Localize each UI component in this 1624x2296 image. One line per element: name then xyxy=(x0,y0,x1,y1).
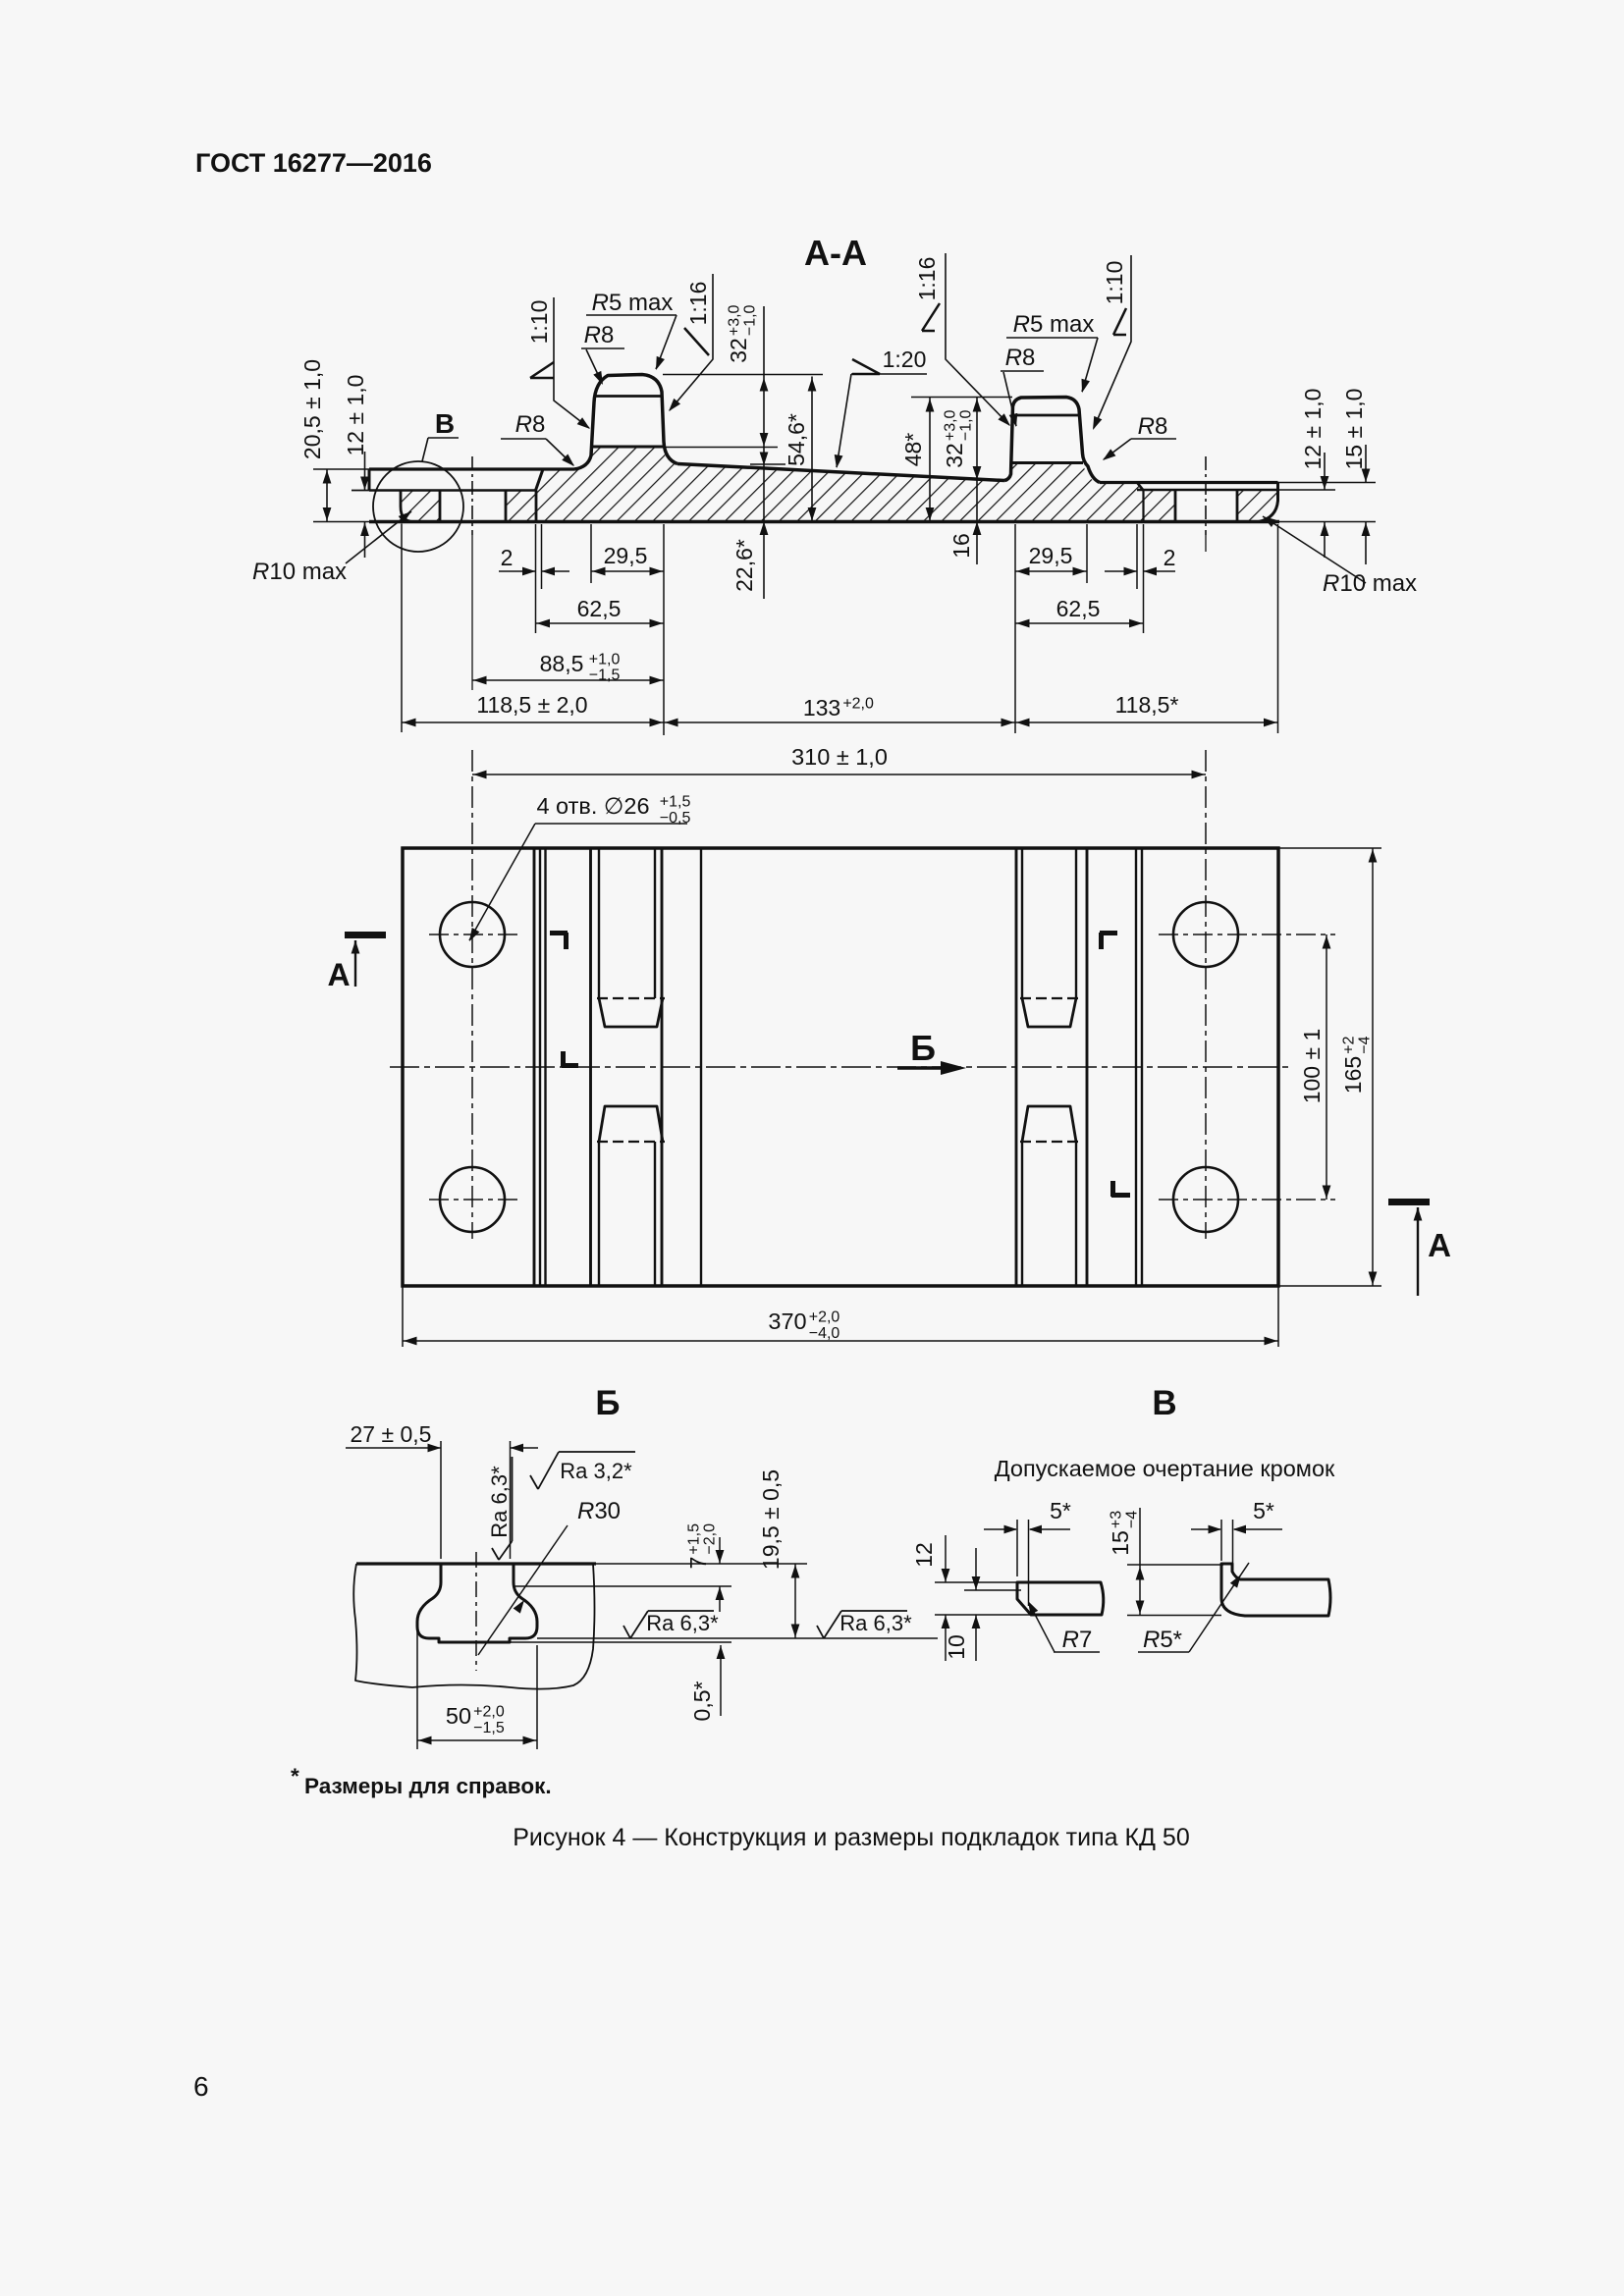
svg-text:5*: 5* xyxy=(1253,1498,1274,1523)
extension line right bottom xyxy=(1279,521,1376,523)
plan hole row centerline top-left xyxy=(429,934,517,935)
dimension 310 +- 1,0 xyxy=(472,774,1206,775)
svg-text:−2,0: −2,0 xyxy=(702,1523,719,1555)
svg-text:88,5: 88,5 xyxy=(540,651,584,676)
svg-text:−4,0: −4,0 xyxy=(809,1325,840,1342)
hatched block left lip xyxy=(401,491,440,522)
svg-text:20,5 ± 1,0: 20,5 ± 1,0 xyxy=(299,359,325,459)
svg-text:Ra 3,2*: Ra 3,2* xyxy=(560,1459,632,1483)
svg-text:0,5*: 0,5* xyxy=(689,1681,715,1721)
detail B block break outline xyxy=(353,1564,594,1689)
plan view outer outline xyxy=(403,848,1278,1286)
svg-text:165: 165 xyxy=(1340,1056,1366,1094)
svg-text:27 ± 0,5: 27 ± 0,5 xyxy=(351,1421,432,1447)
extension tick ledge 473 xyxy=(750,463,785,465)
svg-text:R5 max: R5 max xyxy=(1013,311,1095,338)
detail V left ext bottom xyxy=(935,1614,1031,1616)
left body wall (step) xyxy=(536,469,544,491)
dimension 7 ext xyxy=(514,1585,731,1587)
left flange inner line (pocket bottom) xyxy=(369,489,536,492)
leader R8 right top xyxy=(1003,372,1016,426)
detail B R30 leader xyxy=(478,1525,568,1655)
leader 1:16 right rib xyxy=(946,253,1009,425)
svg-text:А: А xyxy=(1428,1227,1451,1263)
svg-text:1:10: 1:10 xyxy=(1102,261,1127,305)
svg-text:А-А: А-А xyxy=(804,233,867,273)
bolt hole top-right xyxy=(1173,902,1238,967)
svg-text:R8: R8 xyxy=(1005,345,1036,371)
left flange top surface xyxy=(369,467,574,470)
extension of left dome top xyxy=(663,374,823,376)
svg-text:29,5: 29,5 xyxy=(1029,543,1073,568)
svg-text:10: 10 xyxy=(944,1634,969,1660)
dimension 32 left line xyxy=(763,306,765,599)
underline R8 left left xyxy=(501,438,546,440)
left groove trapezoid upper xyxy=(599,998,663,1027)
dimension 12 +- 1,0 right line xyxy=(1324,453,1326,490)
left hole centerline xyxy=(471,456,473,535)
dimension 50 +2,0/-1,5 xyxy=(417,1739,537,1741)
svg-text:Ra 6,3*: Ra 6,3* xyxy=(839,1611,912,1635)
slope mark 1:16 right rib xyxy=(922,303,940,331)
right groove trapezoid upper xyxy=(1022,998,1076,1027)
leader R7 xyxy=(1029,1603,1055,1652)
svg-text:15: 15 xyxy=(1108,1530,1133,1556)
left rib dome underline (R5 max boundary) xyxy=(595,395,662,398)
slope mark 1:10 right rib xyxy=(1113,308,1126,335)
ext line x602 xyxy=(590,524,592,583)
plan rib edge lower x=667 xyxy=(654,1142,656,1286)
dimension 15 +- 1,0 right line xyxy=(1365,445,1367,483)
svg-text:+2,0: +2,0 xyxy=(473,1703,505,1720)
plan vertical line x=714 xyxy=(700,848,702,1286)
dimension 5 ext lines (V left) xyxy=(1016,1520,1018,1576)
svg-text:R5 max: R5 max xyxy=(592,290,674,316)
dimension 32 right text xyxy=(942,409,975,467)
svg-text:Рисунок 4 — Конструкция и разм: Рисунок 4 — Конструкция и размеры подкла… xyxy=(513,1824,1190,1851)
svg-text:R30: R30 xyxy=(577,1498,621,1524)
leader 1:20 xyxy=(837,374,851,467)
extension line for 12 left xyxy=(352,490,371,492)
detail V left ext top xyxy=(935,1581,1017,1583)
svg-text:1:20: 1:20 xyxy=(883,347,927,372)
detail V right ext bottom xyxy=(1127,1615,1221,1617)
right groove trapezoid lower xyxy=(1022,1106,1076,1142)
plan rib edge lower x=610 xyxy=(598,1142,600,1286)
dimension 7 line xyxy=(719,1537,721,1564)
svg-text:29,5: 29,5 xyxy=(604,543,648,568)
svg-text:R10 max: R10 max xyxy=(252,559,347,585)
svg-text:1:10: 1:10 xyxy=(526,300,552,345)
dimension 0,5 line xyxy=(720,1645,722,1716)
svg-text:R8: R8 xyxy=(1138,413,1168,440)
svg-text:12 ± 1,0: 12 ± 1,0 xyxy=(343,375,368,456)
leader R8 left left xyxy=(546,439,573,465)
svg-text:R8: R8 xyxy=(515,411,546,438)
right flange inner line (pocket bottom) xyxy=(1137,489,1278,492)
ext plan bottom-left xyxy=(402,1286,404,1347)
slope mark 1:16 left rib xyxy=(684,328,709,355)
svg-text:+3: +3 xyxy=(1109,1511,1125,1528)
roughness Ra 3,2 (groove flare) xyxy=(530,1452,635,1489)
dimension 15 line (V) xyxy=(1139,1508,1141,1615)
detail B top surface xyxy=(356,1562,596,1565)
underline R8 right right xyxy=(1131,438,1176,440)
underline R5 max left xyxy=(586,314,677,316)
dimension 54,6 line xyxy=(811,377,813,522)
detail B centerline xyxy=(475,1552,477,1671)
dimension 32 right + 16 line xyxy=(976,398,978,565)
hatched block right lip xyxy=(1237,491,1278,522)
bolt hole top-left xyxy=(440,902,505,967)
svg-text:−4: −4 xyxy=(1357,1036,1374,1053)
detail V right ext top xyxy=(1127,1564,1223,1566)
svg-text:+3,0: +3,0 xyxy=(943,409,959,441)
plan vertical line x=555.5 xyxy=(544,848,546,1286)
block2 right edge xyxy=(535,491,538,522)
svg-text:Допускаемое очертание кромок: Допускаемое очертание кромок xyxy=(995,1456,1335,1481)
svg-text:В: В xyxy=(1152,1384,1176,1422)
underline R5 max right xyxy=(1006,337,1098,339)
dimension 27 +- 0,5 xyxy=(346,1447,441,1449)
svg-text:Размеры для справок.: Размеры для справок. xyxy=(304,1774,552,1798)
roughness Ra 6,3 (far right) xyxy=(817,1611,907,1638)
svg-text:7: 7 xyxy=(685,1557,711,1570)
dimension 118,5* right xyxy=(1015,721,1278,723)
svg-text:133: 133 xyxy=(803,695,840,721)
dimension 10 line (V) xyxy=(975,1548,977,1590)
dimension 27 ext lines xyxy=(440,1441,442,1559)
right lip block left edge xyxy=(1236,490,1239,522)
plan horizontal axis centerline xyxy=(390,1066,1293,1068)
svg-text:370: 370 xyxy=(768,1308,806,1334)
dimension 29,5 right xyxy=(1015,570,1087,572)
ext plan bottom-right2 xyxy=(1277,1286,1279,1347)
leader 4 holes xyxy=(469,824,535,940)
plan vertical line x=1035 xyxy=(1015,848,1018,1286)
plan vertical line x=550 xyxy=(539,848,541,1286)
svg-text:50: 50 xyxy=(446,1703,471,1729)
svg-text:Б: Б xyxy=(595,1384,620,1422)
svg-text:2: 2 xyxy=(501,545,514,570)
right groove hidden line upper xyxy=(1020,997,1078,999)
dimension 12 +- 1,0 left line xyxy=(364,452,366,491)
dimension 29,5 left xyxy=(591,570,664,572)
left lip block right edge (hole wall) xyxy=(439,491,442,522)
svg-text:R10 max: R10 max xyxy=(1323,570,1417,597)
svg-text:6: 6 xyxy=(193,2071,209,2102)
plate left edge xyxy=(368,469,371,491)
svg-text:1:16: 1:16 xyxy=(914,257,940,301)
right pocket edge xyxy=(1142,491,1144,522)
svg-text:+2,0: +2,0 xyxy=(809,1308,840,1325)
svg-text:−1,5: −1,5 xyxy=(589,667,621,684)
leader R8 left top xyxy=(586,349,602,383)
ext plan top-right xyxy=(1278,847,1381,849)
plan hole column centerline right xyxy=(1205,750,1207,1239)
dimension 88,5 left xyxy=(472,679,664,681)
right step wall xyxy=(1137,483,1144,491)
view boundary corner mark bottom-right xyxy=(1111,1181,1130,1197)
dimension 370 +2,0/-4,0 xyxy=(403,1340,1278,1342)
svg-text:R7: R7 xyxy=(1062,1627,1093,1653)
right hole centerline xyxy=(1205,456,1207,535)
dimension 48 line xyxy=(929,398,931,522)
underline R8 left top xyxy=(581,347,624,349)
label 4 holes dia 26 xyxy=(536,793,690,827)
plan hole column centerline left xyxy=(471,750,473,1239)
dimension 20,5 +- 1,0 line xyxy=(326,469,328,522)
extension of right dome top xyxy=(911,397,1012,399)
plan rib edge upper x=1041 xyxy=(1021,848,1023,998)
ext line x545.5 xyxy=(535,524,537,633)
ext line x676 xyxy=(663,524,665,735)
dimension 100 +- 1 xyxy=(1326,934,1327,1200)
right rib base line xyxy=(1012,461,1083,464)
svg-text:ГОСТ 16277—2016: ГОСТ 16277—2016 xyxy=(195,148,432,178)
svg-text:+1,0: +1,0 xyxy=(589,652,621,668)
cutting plane mark A left xyxy=(345,932,386,938)
sloped top surface 1:20 xyxy=(677,464,1004,481)
dimension 62,5 right xyxy=(1015,622,1144,624)
plan rib edge upper x=1096 xyxy=(1075,848,1077,998)
svg-text:−4: −4 xyxy=(1124,1511,1141,1528)
plan rib edge lower x=1096 xyxy=(1075,1142,1077,1286)
underline R7 xyxy=(1054,1651,1100,1653)
svg-text:А: А xyxy=(327,957,350,992)
leader 1:10 left rib xyxy=(554,297,589,428)
plan vertical line x=544 xyxy=(533,848,536,1286)
underline 1:20 xyxy=(851,373,927,375)
section baseline (bottom of plate) xyxy=(369,520,1279,524)
svg-text:32: 32 xyxy=(942,443,967,468)
plan rib edge upper x=667 xyxy=(654,848,656,998)
plan vertical line x=1163 xyxy=(1141,848,1143,1286)
right rib dome underline (R5 max boundary) xyxy=(1014,414,1079,417)
slope mark 1:10 left rib xyxy=(530,362,554,378)
svg-text:54,6*: 54,6* xyxy=(784,413,809,466)
ext line x409 xyxy=(401,524,403,733)
detail B top surface extension xyxy=(596,1563,807,1565)
underline R5* xyxy=(1138,1651,1189,1653)
svg-text:118,5 ± 2,0: 118,5 ± 2,0 xyxy=(476,692,587,718)
dimension 12 line (V) xyxy=(945,1535,947,1582)
plan hole row centerline bottom-right xyxy=(1159,1199,1335,1201)
hatched block left of hole 2 xyxy=(506,491,536,522)
svg-text:12: 12 xyxy=(911,1542,937,1568)
svg-text:118,5*: 118,5* xyxy=(1115,692,1179,718)
ext line x1107 xyxy=(1086,524,1088,583)
extension of right inner line xyxy=(1278,489,1336,491)
detail B groove bottom extension xyxy=(537,1637,938,1639)
detail B callout circle xyxy=(373,461,463,552)
svg-text:Ra 6,3*: Ra 6,3* xyxy=(646,1611,719,1635)
left rib base line xyxy=(592,446,664,449)
svg-text:12 ± 1,0: 12 ± 1,0 xyxy=(1300,389,1326,470)
plan hole row centerline bottom-left xyxy=(429,1199,517,1201)
svg-text:62,5: 62,5 xyxy=(577,596,622,621)
leader R5* xyxy=(1189,1563,1249,1652)
detail B callout leader xyxy=(422,438,459,461)
left flange top surface extension xyxy=(313,468,369,470)
leader R10 max left xyxy=(346,511,411,563)
svg-text:310 ± 1,0: 310 ± 1,0 xyxy=(791,744,888,770)
leader 1:10 right rib xyxy=(1094,255,1131,428)
extension of right top surface xyxy=(1278,482,1377,484)
svg-text:100 ± 1: 100 ± 1 xyxy=(1299,1029,1325,1104)
underline R8 right top xyxy=(1001,370,1044,372)
svg-text:62,5: 62,5 xyxy=(1056,596,1101,621)
svg-text:−1,5: −1,5 xyxy=(473,1720,505,1736)
dimension 32 left text xyxy=(726,304,759,362)
roughness Ra 6,3 (groove bottom) xyxy=(623,1611,714,1638)
svg-text:5*: 5* xyxy=(1050,1498,1071,1523)
svg-text:−1,0: −1,0 xyxy=(958,409,975,441)
svg-text:16: 16 xyxy=(948,533,974,559)
svg-text:*: * xyxy=(291,1764,299,1789)
view boundary corner mark top-right xyxy=(1100,933,1117,949)
plan rib edge upper x=610 xyxy=(598,848,600,998)
svg-text:1:16: 1:16 xyxy=(685,282,711,326)
detail V left ext lip xyxy=(964,1589,1021,1591)
plan vertical line x=601.5 xyxy=(589,848,592,1286)
plan rib edge lower x=1041 xyxy=(1021,1142,1023,1286)
left groove hidden line upper xyxy=(597,997,665,999)
leader R10 max right xyxy=(1263,516,1366,583)
dimension 2 right xyxy=(1105,570,1137,572)
svg-text:+1,5: +1,5 xyxy=(660,793,691,810)
left groove hidden line lower xyxy=(597,1141,665,1143)
ext line x1164.5 xyxy=(1143,524,1145,633)
extension of left rib base xyxy=(664,447,778,449)
svg-text:19,5 ± 0,5: 19,5 ± 0,5 xyxy=(758,1469,784,1570)
cutting plane mark A right xyxy=(1388,1199,1430,1205)
svg-text:22,6*: 22,6* xyxy=(731,539,757,592)
detail B lower step extension xyxy=(510,1641,731,1643)
dimension 118,5 +- 2,0 xyxy=(402,721,664,723)
dimension 5 line (V left) xyxy=(984,1528,1016,1530)
detail B groove profile xyxy=(417,1564,537,1642)
dimension 5 ext lines (V right) xyxy=(1220,1520,1222,1561)
plan hole row centerline top-right xyxy=(1159,934,1335,935)
dimension 19,5 line xyxy=(794,1564,796,1638)
ext line x551.5 xyxy=(541,524,543,589)
svg-text:+2: +2 xyxy=(1341,1036,1358,1053)
right rib profile with fillets xyxy=(1004,398,1100,483)
svg-text:В: В xyxy=(435,408,455,439)
bolt hole bottom-left xyxy=(440,1167,505,1232)
bolt hole bottom-right xyxy=(1173,1167,1238,1232)
roughness Ra 6,3 rotated (groove wall) xyxy=(492,1457,513,1560)
leader R5 max right xyxy=(1082,338,1098,392)
plan vertical line x=1157 xyxy=(1135,848,1137,1286)
svg-text:Ra 6,3*: Ra 6,3* xyxy=(487,1466,512,1538)
dimension 133 +2,0 xyxy=(664,721,1015,723)
right flange top surface xyxy=(1100,481,1278,484)
left rib profile with fillets xyxy=(574,375,677,470)
svg-text:15 ± 1,0: 15 ± 1,0 xyxy=(1341,389,1367,470)
plate right edge with R10 corner xyxy=(1259,483,1278,522)
dimension 165 +2/-4 xyxy=(1372,848,1374,1286)
svg-text:48*: 48* xyxy=(900,433,926,467)
svg-text:R5*: R5* xyxy=(1143,1627,1182,1653)
detail V left sketch profile xyxy=(1017,1582,1104,1615)
right hole left wall xyxy=(1174,490,1177,522)
svg-text:+3,0: +3,0 xyxy=(727,304,743,336)
slope mark 1:20 xyxy=(852,359,880,374)
leader 1:16 left rib xyxy=(670,274,713,410)
ext plan bottom-right xyxy=(1278,1285,1381,1287)
ext line x1158 xyxy=(1136,524,1138,589)
view B direction arrow xyxy=(897,1066,943,1070)
leader R8 right right xyxy=(1104,439,1131,459)
block2 left edge (hole wall) xyxy=(505,491,508,522)
svg-text:R8: R8 xyxy=(584,322,615,348)
svg-text:Б: Б xyxy=(910,1028,936,1068)
dimension 5 line (V right) xyxy=(1191,1528,1220,1530)
left inner line extension xyxy=(352,490,369,492)
left groove trapezoid lower xyxy=(599,1106,663,1142)
svg-text:32: 32 xyxy=(726,338,751,363)
svg-text:4 отв. ∅26: 4 отв. ∅26 xyxy=(536,793,649,819)
svg-text:2: 2 xyxy=(1164,545,1176,570)
section A-A hatched cut area (main body) xyxy=(536,447,1144,522)
plan vertical line x=674 xyxy=(661,848,664,1286)
view boundary corner mark mid-left xyxy=(562,1051,578,1067)
hatched block right flange xyxy=(1144,491,1176,522)
plan vertical line x=1107 xyxy=(1086,848,1089,1286)
left lip block left edge with R10 corner xyxy=(401,491,413,522)
dimension 62,5 left xyxy=(536,622,665,624)
view boundary corner mark top-left xyxy=(550,933,568,949)
ext line x1301.5 xyxy=(1277,524,1279,733)
svg-text:+2,0: +2,0 xyxy=(842,696,874,713)
ext line x1034 xyxy=(1014,524,1016,733)
dimension 2 left xyxy=(499,570,535,572)
dimension 7 text xyxy=(685,1523,719,1570)
detail V right sketch profile xyxy=(1221,1564,1330,1616)
right groove hidden line lower xyxy=(1020,1141,1078,1143)
svg-text:+1,5: +1,5 xyxy=(686,1523,703,1555)
dimension 15 text (V) xyxy=(1108,1511,1141,1556)
svg-text:−1,0: −1,0 xyxy=(742,304,759,336)
extension line left bottom xyxy=(313,521,371,523)
leader R5 max left xyxy=(656,315,677,369)
dimension 50 ext lines xyxy=(416,1620,418,1749)
